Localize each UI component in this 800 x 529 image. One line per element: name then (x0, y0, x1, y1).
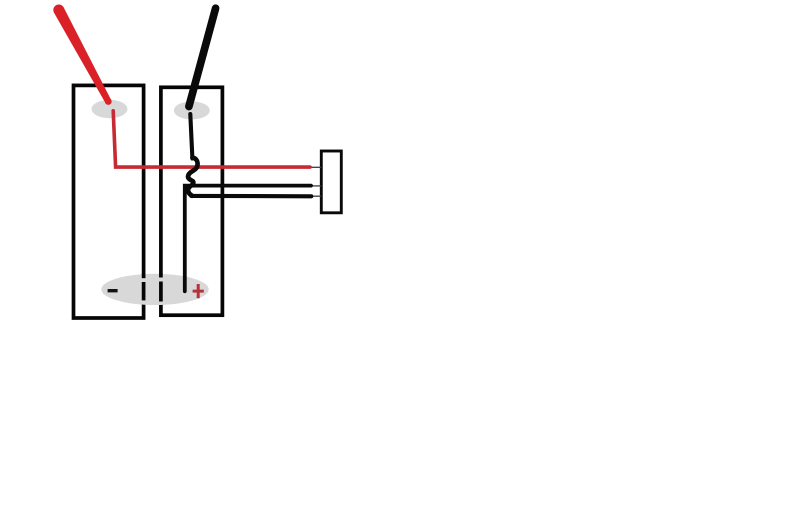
cell2 left edge segment inside bottom blob (159, 273, 163, 277)
minus label (108, 289, 118, 292)
leader pin wire red terminal (308, 166, 321, 168)
battery cell 2 (right rectangle) (161, 87, 223, 315)
battery cell 1 (left rectangle) (74, 85, 144, 318)
connector block (small rectangle) (321, 151, 341, 213)
red wire from cell1 top terminal to connector (113, 111, 310, 167)
leader pin wire lower terminal (309, 195, 321, 197)
black wire from bottom plus terminal to connector (upper horizontal) (185, 186, 311, 292)
cell1 right edge segment inside bottom blob (142, 274, 146, 279)
plus label (193, 284, 204, 298)
terminal blob battery 2 (gray ellipse) (174, 101, 210, 119)
leader pin wire middle terminal (309, 185, 321, 187)
black wire from cell2 top terminal with squiggle to connector (lower horizontal) (190, 114, 192, 159)
bottom terminal blob (gray ellipse over both cells) (101, 274, 208, 305)
black battery lead (thick diagonal top) (189, 8, 216, 106)
terminal blob battery 1 (gray ellipse) (92, 100, 128, 118)
red battery lead (thick diagonal top-left, tapered brush stroke) (54, 7, 111, 103)
